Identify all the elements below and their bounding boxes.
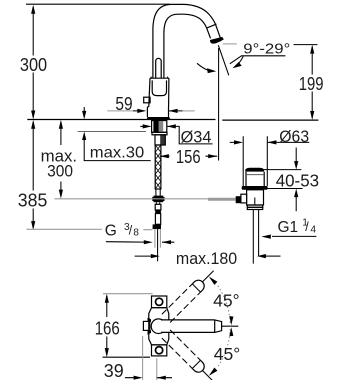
svg-text:156: 156	[176, 146, 201, 167]
dim 166 vertical line	[106, 296, 108, 355]
dim 199 vertical line	[311, 47, 313, 118]
pop-up rod thick	[208, 198, 236, 201]
plan spout axis line	[222, 325, 239, 327]
svg-text:45°: 45°	[214, 345, 241, 364]
dim O34 line and arrows	[140, 126, 212, 143]
washer dark bands	[153, 121, 158, 133]
svg-text:4: 4	[310, 225, 316, 236]
svg-text:Ø34: Ø34	[181, 127, 212, 146]
plan body plate	[149, 308, 169, 345]
dim max300 vertical line	[60, 122, 62, 196]
hose tails gray	[155, 229, 161, 248]
dim max300 arrows	[59, 120, 63, 129]
svg-text:39: 39	[104, 360, 124, 380]
deck underside line	[78, 131, 146, 133]
body top edge	[150, 77, 169, 79]
plan upper diagonal center tip line	[203, 271, 214, 282]
swivel curved arrow left	[197, 63, 213, 71]
plan lower diagonal cap	[192, 360, 204, 372]
spout tip extension line	[218, 48, 220, 161]
plan spout bar	[161, 320, 215, 333]
drain bottom rings	[247, 205, 262, 207]
spout swivel diagonal line	[218, 45, 229, 75]
pop-up rod thin reference (max300 level)	[54, 198, 208, 200]
dim max.30 bottom arrow and leader	[82, 132, 86, 141]
svg-text:385: 385	[18, 190, 48, 211]
spout joint line	[206, 24, 216, 28]
plan swivel arc dotted	[218, 286, 230, 367]
svg-text:199: 199	[299, 73, 324, 94]
dim 199 ref line at spout outlet level	[294, 44, 318, 46]
plan spout cap	[215, 320, 222, 333]
plan hub nose	[143, 321, 149, 330]
base dark band	[147, 117, 171, 120]
svg-text:300: 300	[20, 54, 47, 75]
svg-text:9°-29°: 9°-29°	[243, 41, 290, 57]
counter/deck line right segment	[222, 119, 318, 121]
backnut	[155, 135, 165, 145]
svg-text:300: 300	[47, 161, 73, 180]
svg-text:G: G	[105, 223, 117, 240]
plan body circle	[151, 319, 166, 334]
dim 59 line	[107, 110, 133, 112]
drain knob cap	[245, 168, 264, 172]
shank to fitting connecting tubes	[156, 189, 160, 204]
plan upper diagonal spout dashed edges	[162, 284, 201, 323]
mouth aerator dark bar	[210, 37, 224, 44]
dim 300 vertical line	[32, 7, 34, 117]
drain tailpipe	[253, 210, 258, 264]
mouthpiece left side	[207, 28, 211, 39]
dim 166 extension lines	[103, 293, 153, 295]
lever handle	[156, 58, 162, 78]
dim 385 vertical line	[32, 122, 34, 228]
dim 385 arrows	[31, 120, 35, 129]
dim 156 line	[160, 155, 217, 157]
svg-text:40-53: 40-53	[276, 171, 319, 190]
dim 39 line and arrows	[125, 377, 172, 379]
svg-text:max.180: max.180	[176, 249, 237, 268]
drain body	[247, 190, 264, 205]
dim max.180 arrows	[135, 255, 151, 257]
spout gooseneck outer contour	[153, 4, 221, 78]
swivel curved arrow right	[236, 56, 243, 66]
dim 156 arrows	[160, 154, 169, 158]
svg-text:59: 59	[115, 93, 132, 114]
svg-text:G1: G1	[278, 219, 299, 236]
body inner rounded panel	[152, 80, 166, 95]
plan bottom tab screw hole	[156, 347, 163, 354]
svg-text:45°: 45°	[213, 291, 240, 310]
plan hub chamfers	[148, 318, 152, 335]
washer block below deck	[152, 121, 167, 133]
rod black ferrule	[236, 196, 241, 203]
plan top mounting tab	[152, 296, 167, 308]
dim 166 arrows	[105, 294, 109, 303]
svg-text:8: 8	[133, 228, 139, 239]
drain body center line	[254, 198, 256, 206]
plan upper diagonal cap	[192, 280, 204, 292]
body sides	[147, 78, 169, 117]
cross fitting (hose tee)	[154, 196, 164, 203]
plan arc arrowheads	[209, 277, 218, 285]
svg-text:max.30: max.30	[90, 145, 145, 162]
washer flange lip	[152, 132, 167, 135]
spout gooseneck inner contour	[164, 14, 207, 78]
label 9-29 underline leader	[230, 56, 286, 64]
top reference line (spout apex level)	[26, 3, 170, 5]
dim max.30 top arrow	[83, 107, 85, 112]
body corner ticks	[151, 77, 167, 79]
dim 59 arrows	[137, 109, 146, 113]
svg-text:Ø63: Ø63	[279, 127, 309, 146]
dim O63 line and arrows	[230, 141, 310, 143]
hose center line	[157, 229, 159, 261]
counter/deck line left segment	[27, 119, 215, 121]
drain left port	[241, 194, 247, 203]
connector stack	[155, 204, 161, 210]
dim 40-53 arrows	[295, 148, 297, 212]
plan lower diagonal center tip line	[203, 371, 214, 380]
G3/8 connector nut	[153, 224, 161, 229]
plan lower diagonal joint line	[192, 360, 200, 368]
drain flange black band	[242, 186, 268, 190]
385 level gray reference line	[27, 228, 153, 230]
label 9-29 leader gray	[223, 43, 237, 45]
body left tab	[144, 97, 150, 103]
dim 40-53 bracket lines	[260, 170, 303, 189]
threaded shank with cross hatch	[155, 145, 161, 189]
plan lower diagonal spout dashed edges	[162, 330, 201, 369]
plan top tab screw hole	[156, 298, 163, 305]
svg-text:/: /	[305, 220, 309, 234]
dim 300 arrows	[31, 5, 35, 14]
dim 199 arrows	[310, 45, 314, 54]
dim 39 extension lines	[143, 336, 157, 380]
drain knob body	[246, 172, 264, 186]
plan upper diagonal joint line	[192, 284, 200, 292]
svg-text:/: /	[129, 224, 133, 238]
dim O63 extension lines	[243, 136, 267, 186]
svg-text:166: 166	[95, 318, 120, 339]
plan bottom mounting tab	[152, 345, 167, 356]
